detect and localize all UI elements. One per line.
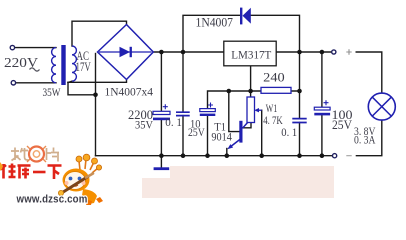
- svg-text:1N4007x4: 1N4007x4: [105, 85, 154, 99]
- svg-text:35W: 35W: [43, 85, 62, 99]
- svg-text:0. 1: 0. 1: [165, 117, 182, 129]
- svg-text:25V: 25V: [188, 127, 205, 139]
- svg-text:LM317T: LM317T: [231, 48, 272, 62]
- svg-text:1N4007: 1N4007: [196, 15, 234, 29]
- svg-text:9014: 9014: [211, 131, 232, 143]
- svg-text:www.dzsc.com: www.dzsc.com: [16, 194, 88, 206]
- svg-text:0. 1: 0. 1: [281, 127, 297, 139]
- svg-text:240: 240: [263, 70, 285, 84]
- svg-text:17V: 17V: [76, 59, 92, 74]
- svg-text:0. 3A: 0. 3A: [354, 135, 376, 147]
- svg-text:W1: W1: [266, 103, 278, 115]
- svg-text:25V: 25V: [332, 118, 352, 132]
- svg-text:4. 7K: 4. 7K: [263, 115, 283, 127]
- svg-text:35V: 35V: [135, 118, 153, 132]
